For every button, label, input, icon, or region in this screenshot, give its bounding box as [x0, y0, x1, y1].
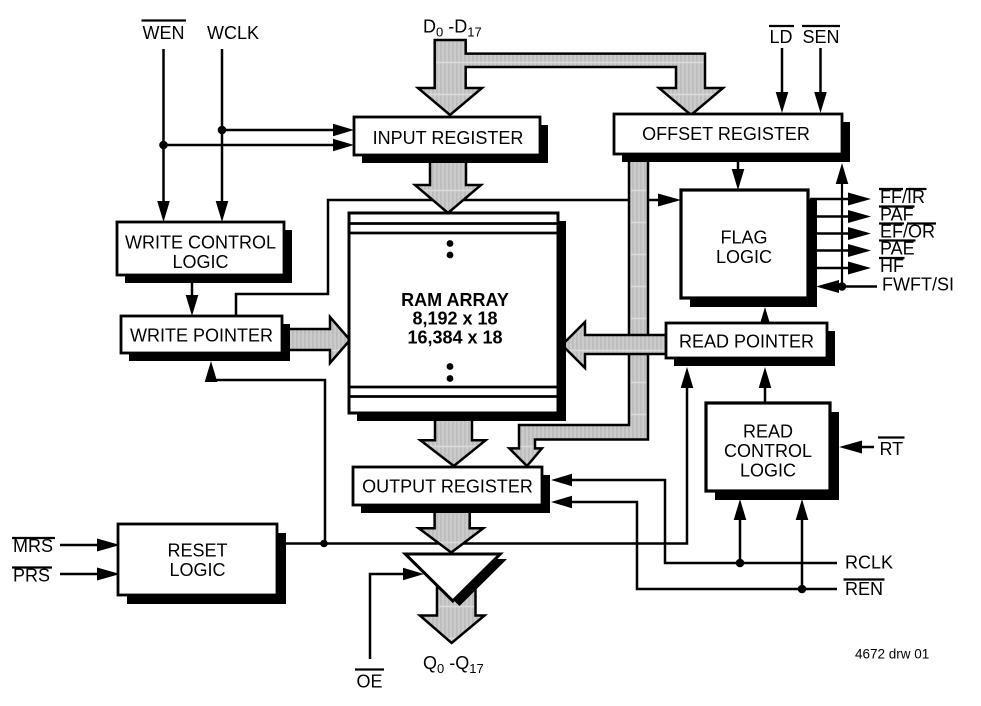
wire RCLK into OUTPUT REGISTER [551, 474, 837, 563]
bus arrow D0-D17 into INPUT REGISTER and OFFSET REGISTER [418, 40, 723, 115]
label REN [844, 579, 885, 599]
svg-text:PRS: PRS [13, 566, 50, 586]
label SEN [802, 26, 840, 47]
svg-text:RT: RT [880, 439, 904, 459]
bus arrow OUTPUT REGISTER to output buffer [419, 505, 484, 553]
wire READ POINTER to FLAG LOGIC [759, 307, 772, 328]
svg-text:OUTPUT REGISTER: OUTPUT REGISTER [362, 477, 533, 497]
bus arrow INPUT REGISTER to RAM ARRAY [415, 156, 481, 213]
bus path OFFSET REGISTER down to OUTPUT REGISTER [509, 156, 648, 466]
wire REN into OUTPUT REGISTER [551, 496, 837, 589]
svg-text:OFFSET REGISTER: OFFSET REGISTER [642, 124, 810, 144]
label WEN [142, 21, 187, 44]
svg-text:16,384 x 18: 16,384 x 18 [407, 328, 502, 348]
wire WCLK branch into INPUT REGISTER [222, 124, 354, 137]
junction RCLK branch [736, 559, 745, 568]
svg-text:REN: REN [845, 579, 883, 599]
wire WRITE POINTER to FLAG LOGIC [236, 194, 681, 317]
svg-text:LOGIC: LOGIC [169, 560, 225, 580]
wire OFFSET REGISTER to FLAG LOGIC [732, 156, 745, 190]
label OE [355, 670, 384, 692]
svg-text:HF: HF [880, 256, 904, 276]
junction WCLK branch [218, 126, 227, 135]
block READ POINTER [666, 323, 835, 366]
block WRITE CONTROL LOGIC [117, 222, 292, 283]
wire RCLK branch into READ CONTROL LOGIC [734, 499, 747, 563]
label RT [878, 438, 905, 460]
block RESET LOGIC [118, 524, 286, 604]
svg-text:WRITE CONTROL: WRITE CONTROL [125, 233, 276, 253]
svg-text:WRITE POINTER: WRITE POINTER [130, 326, 273, 346]
bus arrow WRITE POINTER to RAM ARRAY [284, 317, 350, 363]
wire FWFT/SI input into FLAG LOGIC and up to OFFSET REGISTER [816, 163, 877, 293]
wire up into WRITE POINTER bottom [205, 361, 325, 544]
svg-text:MRS: MRS [13, 536, 53, 556]
svg-text:CONTROL: CONTROL [724, 441, 812, 461]
label MRS [12, 536, 55, 556]
wire OE into output buffer [370, 568, 424, 659]
wire flag output PAE [810, 244, 871, 257]
svg-text:READ POINTER: READ POINTER [679, 332, 814, 352]
svg-text:RCLK: RCLK [845, 553, 893, 573]
block WRITE POINTER [121, 316, 290, 361]
svg-text:RAM ARRAY: RAM ARRAY [401, 290, 509, 310]
output buffer tri-state [405, 554, 507, 606]
label LD [769, 26, 794, 47]
wire flag output HF [810, 262, 871, 275]
bus arrow output buffer to Q0-Q17 [420, 568, 485, 643]
block OFFSET REGISTER [614, 114, 850, 162]
svg-text:FLAG: FLAG [720, 228, 767, 248]
junction RESET wire to WRITE POINTER branch [320, 540, 328, 548]
svg-text:FWFT/SI: FWFT/SI [882, 275, 954, 295]
wire MRS into RESET LOGIC [60, 539, 120, 552]
wire RESET LOGIC output up into READ POINTER [277, 367, 693, 544]
junction WEN branch [159, 141, 168, 150]
wire flag output FF/IR [810, 193, 871, 206]
svg-text:READ: READ [743, 422, 793, 442]
label FF/IR [879, 187, 927, 207]
wire WEN vertical into WRITE CONTROL LOGIC [157, 49, 170, 222]
svg-text:INPUT REGISTER: INPUT REGISTER [373, 128, 524, 148]
wire REN branch into READ CONTROL LOGIC [796, 499, 809, 589]
junction REN branch [798, 585, 807, 594]
wire PRS into RESET LOGIC [60, 568, 120, 581]
label HF [879, 256, 905, 276]
wire SEN into OFFSET REGISTER [814, 48, 827, 113]
label PAE [879, 239, 916, 259]
svg-text:LD: LD [769, 27, 792, 47]
wire LD into OFFSET REGISTER [776, 48, 789, 113]
svg-text:LOGIC: LOGIC [716, 247, 772, 267]
block FLAG LOGIC [681, 190, 817, 307]
label EF/OR [879, 222, 936, 242]
svg-text:SEN: SEN [802, 27, 839, 47]
svg-text:OE: OE [356, 672, 382, 692]
wire WRITE CONTROL LOGIC to WRITE POINTER [186, 275, 199, 316]
wire READ CONTROL LOGIC to READ POINTER [759, 367, 772, 403]
svg-text:LOGIC: LOGIC [740, 461, 796, 481]
wire flag output PAF [810, 210, 871, 223]
wire WCLK vertical into WRITE CONTROL LOGIC [216, 49, 229, 222]
bus arrow RAM ARRAY to OUTPUT REGISTER [420, 412, 485, 466]
svg-text:RESET: RESET [167, 541, 227, 561]
wire WEN branch into INPUT REGISTER [164, 139, 355, 152]
bus arrow READ POINTER to RAM ARRAY [562, 322, 668, 368]
wire RT into READ CONTROL LOGIC [839, 441, 874, 454]
block RAM ARRAY [349, 213, 566, 421]
block READ CONTROL LOGIC [706, 403, 839, 500]
svg-text:WEN: WEN [143, 23, 185, 43]
label PAF [879, 205, 915, 225]
wire flag output EF/OR [810, 227, 871, 240]
block INPUT REGISTER [354, 117, 548, 163]
svg-text:WCLK: WCLK [207, 23, 259, 43]
svg-text:8,192 x 18: 8,192 x 18 [412, 309, 497, 329]
svg-text:4672 drw 01: 4672 drw 01 [855, 647, 929, 662]
label PRS [12, 566, 52, 586]
svg-text:LOGIC: LOGIC [172, 252, 228, 272]
block OUTPUT REGISTER [353, 467, 550, 513]
